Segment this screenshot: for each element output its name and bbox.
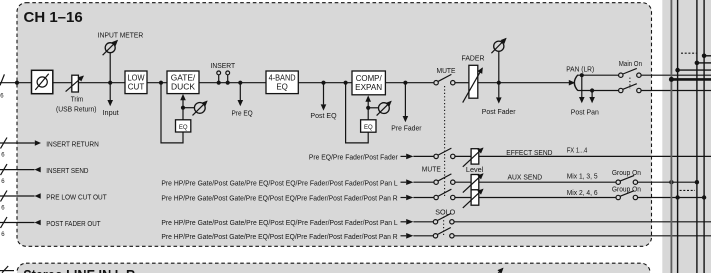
channel fader <box>463 65 483 102</box>
bus: group 2 <box>677 0 679 273</box>
pre eq out arrow <box>238 83 244 107</box>
svg-text:Pre EQ/Pre Fader/Post Fader: Pre EQ/Pre Fader/Post Fader <box>309 154 398 161</box>
wire <box>478 82 574 84</box>
node: group1 bus junction <box>669 180 673 184</box>
effect mute switch <box>434 148 455 158</box>
svg-text:Stereo LINE IN L,R: Stereo LINE IN L,R <box>23 267 135 273</box>
group on switch 1 <box>616 175 638 184</box>
bus: group 4 <box>703 0 705 273</box>
mute switch <box>434 74 455 85</box>
input meter <box>103 41 118 83</box>
svg-text:Pre HP/Pre Gate/Post Gate/Pre: Pre HP/Pre Gate/Post Gate/Pre EQ/Post EQ… <box>161 220 397 227</box>
aux1 send level <box>463 174 483 193</box>
gate sidechain arrow into box <box>180 94 186 108</box>
wire: effect send bus <box>479 155 711 157</box>
svg-text:Group On: Group On <box>612 187 641 194</box>
solo R switch <box>433 228 454 239</box>
pan pot (crescent) <box>574 75 578 91</box>
post pan L out arrow <box>579 75 585 103</box>
wire <box>455 82 469 84</box>
node: gate sidechain tap <box>159 81 163 85</box>
pre low cut slash <box>1 191 8 212</box>
dashed bus link top <box>681 52 697 54</box>
svg-text:6: 6 <box>1 232 5 238</box>
node: group4 bus junction <box>702 195 706 199</box>
svg-text:Mix 1, 3, 5: Mix 1, 3, 5 <box>567 174 598 181</box>
node: group3 bus junction <box>695 180 699 184</box>
comp sidechain wire up <box>367 108 369 120</box>
comp sidechain arrow into box <box>365 95 371 107</box>
svg-text:EQ: EQ <box>364 125 373 131</box>
svg-text:LOW: LOW <box>128 74 145 83</box>
wire <box>455 181 471 183</box>
gate/duck box <box>167 71 199 94</box>
post fader out arrow <box>496 83 502 104</box>
node: post pan R tap <box>590 88 594 92</box>
svg-text:Pre HP/Pre Gate/Post Gate/Pre: Pre HP/Pre Gate/Post Gate/Pre EQ/Post EQ… <box>161 180 397 187</box>
svg-text:6: 6 <box>1 179 5 185</box>
node: pre eq tap <box>238 81 242 85</box>
gate gain-reduction meter <box>183 101 207 115</box>
svg-text:PRE LOW CUT OUT: PRE LOW CUT OUT <box>46 192 107 201</box>
bus band background <box>662 0 711 273</box>
node: post eq tap <box>321 81 325 85</box>
solo gang dashed link <box>443 217 445 235</box>
wire: solo bus R <box>454 235 711 237</box>
row: insert return <box>0 140 41 146</box>
CH 1-16 panel <box>17 3 652 247</box>
svg-text:CUT: CUT <box>128 83 145 92</box>
effect send level <box>463 148 483 167</box>
svg-text:FADER: FADER <box>462 54 486 63</box>
pan input arrow <box>569 80 575 86</box>
svg-text:INSERT: INSERT <box>211 61 236 70</box>
svg-text:Pre EQ: Pre EQ <box>232 108 253 117</box>
comp sidechain EQ box <box>361 120 376 132</box>
aux1 mute switch <box>434 174 455 185</box>
svg-text:INSERT SEND: INSERT SEND <box>46 166 89 175</box>
Stereo LINE IN panel <box>17 263 650 273</box>
aux2 mute switch <box>434 189 455 200</box>
post eq out arrow <box>321 83 327 111</box>
node: post pan L tap <box>580 73 584 77</box>
svg-text:Pre HP/Pre Gate/Post Gate/Pre: Pre HP/Pre Gate/Post Gate/Pre EQ/Post EQ… <box>161 234 397 241</box>
svg-text:FX 1...4: FX 1...4 <box>567 148 588 155</box>
svg-text:Mix 2, 4, 6: Mix 2, 4, 6 <box>567 190 598 197</box>
bus branch 3 <box>695 61 711 66</box>
wire <box>479 197 616 199</box>
wire: solo bus L <box>454 221 711 223</box>
node: input meter tap <box>108 81 112 85</box>
gate sidechain loop wire <box>161 83 183 143</box>
svg-text:INSERT RETURN: INSERT RETURN <box>46 139 99 148</box>
node: post fader tap <box>497 81 501 85</box>
main on gang dashed link <box>629 78 631 89</box>
node: group2 bus junction <box>675 195 679 199</box>
svg-text:COMP/: COMP/ <box>356 74 383 83</box>
bus: stereo L (gray) <box>670 0 672 273</box>
wire <box>385 82 434 84</box>
effect send feed arrow <box>401 154 434 160</box>
phase switch box <box>32 70 53 93</box>
solo L switch <box>433 214 454 225</box>
wire <box>479 181 616 183</box>
row: post fader out <box>0 220 41 226</box>
gate sidechain wire up <box>182 108 184 120</box>
solo L feed arrow <box>401 219 434 225</box>
svg-text:EFFECT SEND: EFFECT SEND <box>506 148 553 157</box>
svg-text:Post Fader: Post Fader <box>482 107 516 116</box>
svg-text:Pre Fader: Pre Fader <box>391 124 422 133</box>
mute gang dashed link <box>444 86 446 197</box>
svg-text:MUTE: MUTE <box>422 165 441 174</box>
wire: to stereo bus L <box>641 74 711 76</box>
wire: to group bus 1 <box>638 181 697 183</box>
wire <box>199 82 266 84</box>
wire: channel input line <box>0 82 32 84</box>
svg-text:Main On: Main On <box>619 61 642 68</box>
wire <box>298 82 352 84</box>
wire <box>455 197 471 199</box>
svg-text:EQ: EQ <box>179 125 188 131</box>
svg-text:MUTE: MUTE <box>437 66 456 75</box>
input direct out arrow <box>107 83 113 107</box>
svg-text:AUX SEND: AUX SEND <box>508 173 543 182</box>
bus branch 1 (stereo pair) <box>669 77 711 82</box>
comp sidechain loop wire <box>346 83 369 143</box>
main on switch R <box>619 84 642 93</box>
insert send slash <box>1 164 8 185</box>
node: insert return point <box>226 81 230 85</box>
wire: pan L out <box>578 74 619 76</box>
wire <box>455 155 471 157</box>
node: insert send point <box>217 81 221 85</box>
insert jacks <box>217 71 230 83</box>
comp/expan box <box>352 71 385 95</box>
low cut box <box>125 71 147 94</box>
aux2 feed arrow <box>401 195 434 201</box>
post fader meter <box>491 39 506 83</box>
svg-text:Level: Level <box>466 167 484 174</box>
comp gain-reduction meter <box>368 101 391 115</box>
bus: group 3 <box>696 0 698 273</box>
node: gate meter tap <box>181 106 185 110</box>
svg-text:Group On: Group On <box>612 170 641 177</box>
node: pre fader tap <box>403 81 407 85</box>
4-band eq box <box>266 71 298 94</box>
wire <box>147 82 167 84</box>
svg-text:Trim: Trim <box>71 97 84 104</box>
wire <box>78 82 125 84</box>
svg-text:POST FADER OUT: POST FADER OUT <box>46 219 101 228</box>
post fader out slash <box>1 217 8 238</box>
svg-text:PAN (LR): PAN (LR) <box>566 64 594 73</box>
gate sidechain EQ box <box>176 120 191 132</box>
svg-text:6: 6 <box>0 94 4 100</box>
svg-text:EXPAN: EXPAN <box>355 83 382 92</box>
svg-text:4-BAND: 4-BAND <box>269 74 296 83</box>
post pan R out arrow <box>589 91 595 104</box>
svg-text:(USB Return): (USB Return) <box>56 107 97 114</box>
svg-text:CH 1–16: CH 1–16 <box>24 9 83 26</box>
svg-text:Pre HP/Pre Gate/Post Gate/Pre: Pre HP/Pre Gate/Post Gate/Pre EQ/Post EQ… <box>161 196 397 203</box>
insert return slash <box>1 138 8 159</box>
svg-text:6: 6 <box>1 153 5 159</box>
bus branch 2 <box>675 68 711 73</box>
dashed bus link mid <box>680 189 695 191</box>
stereo line in input wire <box>0 270 14 272</box>
aux1 feed arrow <box>401 179 434 185</box>
node: input at panel border <box>15 81 19 85</box>
solo R feed arrow <box>401 233 434 239</box>
wire <box>53 82 72 84</box>
wire: to group bus 2 <box>638 197 705 199</box>
node: comp meter tap <box>366 106 370 110</box>
input 16-channel slash <box>0 74 4 99</box>
pre fader out arrow <box>403 83 409 123</box>
node: comp sidechain tap <box>344 81 348 85</box>
row: pre low cut out <box>0 193 41 199</box>
row: insert send <box>0 167 41 173</box>
group on switch 2 <box>616 191 638 200</box>
main on switch L <box>619 68 642 77</box>
svg-text:Post Pan: Post Pan <box>571 108 599 117</box>
svg-text:Input: Input <box>103 108 120 117</box>
svg-text:6: 6 <box>1 206 5 212</box>
svg-text:GATE/: GATE/ <box>171 74 196 83</box>
svg-text:DUCK: DUCK <box>171 83 196 92</box>
stereo line in meter arrow fragment <box>498 268 503 273</box>
trim (variable attenuator) <box>66 75 84 92</box>
svg-text:EQ: EQ <box>276 83 288 92</box>
aux2 send level <box>463 189 483 208</box>
stereo line in slash <box>2 266 8 273</box>
bus branch 4 <box>702 54 711 59</box>
svg-text:SOLO: SOLO <box>435 208 455 217</box>
wire: to stereo bus R <box>641 90 711 92</box>
svg-text:Post EQ: Post EQ <box>310 111 336 120</box>
wire: pan R out <box>578 90 619 92</box>
svg-text:INPUT METER: INPUT METER <box>98 30 144 39</box>
